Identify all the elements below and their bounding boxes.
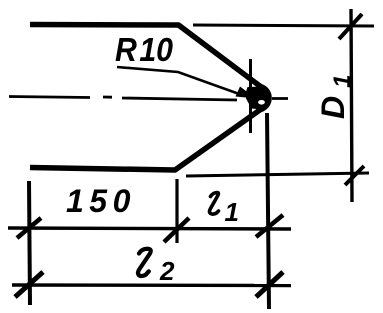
leader line for R10 xyxy=(117,67,242,95)
tick at top of D1 dimension xyxy=(339,14,362,39)
D1 dimension line (vertical, right) xyxy=(351,9,352,202)
middle extension line (150 / l1 boundary) xyxy=(175,179,178,243)
bar outline (thick): top edge, upper slant, R10 apex arc, lower slant, bottom edge xyxy=(30,25,269,171)
right extension line (tip) xyxy=(267,113,269,309)
label l2 xyxy=(138,249,151,276)
tangent mark through arc start points xyxy=(249,59,252,133)
label l1 xyxy=(210,193,219,215)
label D1 (rotated) xyxy=(315,75,356,119)
dimension line l2 xyxy=(12,283,291,287)
svg-text:2: 2 xyxy=(159,256,175,286)
svg-text:R 10: R 10 xyxy=(115,31,174,68)
solid ink blob at rounded tip xyxy=(246,87,269,110)
bottom extension line to D1 dimension xyxy=(186,173,369,176)
leader arrowhead xyxy=(236,87,257,99)
tick at bottom of D1 dimension xyxy=(345,166,364,185)
tick l2-right xyxy=(256,272,283,297)
tick l1-right xyxy=(256,215,283,237)
top extension line to D1 dimension xyxy=(193,25,374,26)
centerline (dash-dot axis) xyxy=(9,97,288,101)
left extension line xyxy=(29,181,30,305)
dimension line 150 / l1 xyxy=(8,228,291,229)
tick l2-left xyxy=(15,272,43,297)
tick 150/l1 middle xyxy=(164,218,189,242)
svg-text:1: 1 xyxy=(225,197,239,227)
svg-text:150: 150 xyxy=(66,183,136,219)
tick 150-left xyxy=(17,218,41,238)
